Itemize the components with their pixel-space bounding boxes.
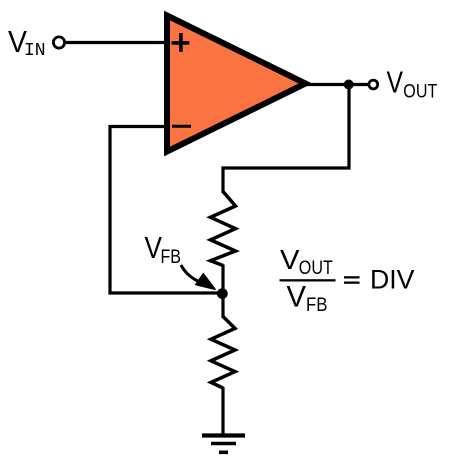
svg-text:V: V: [280, 244, 300, 275]
svg-text:OUT: OUT: [403, 82, 437, 103]
svg-text:IN: IN: [24, 41, 46, 61]
svg-text:DIV: DIV: [370, 265, 415, 295]
svg-text:V: V: [287, 280, 307, 313]
svg-text:V: V: [387, 66, 404, 100]
svg-text:FB: FB: [306, 294, 328, 316]
svg-text:FB: FB: [161, 246, 182, 268]
svg-text:OUT: OUT: [299, 258, 333, 279]
